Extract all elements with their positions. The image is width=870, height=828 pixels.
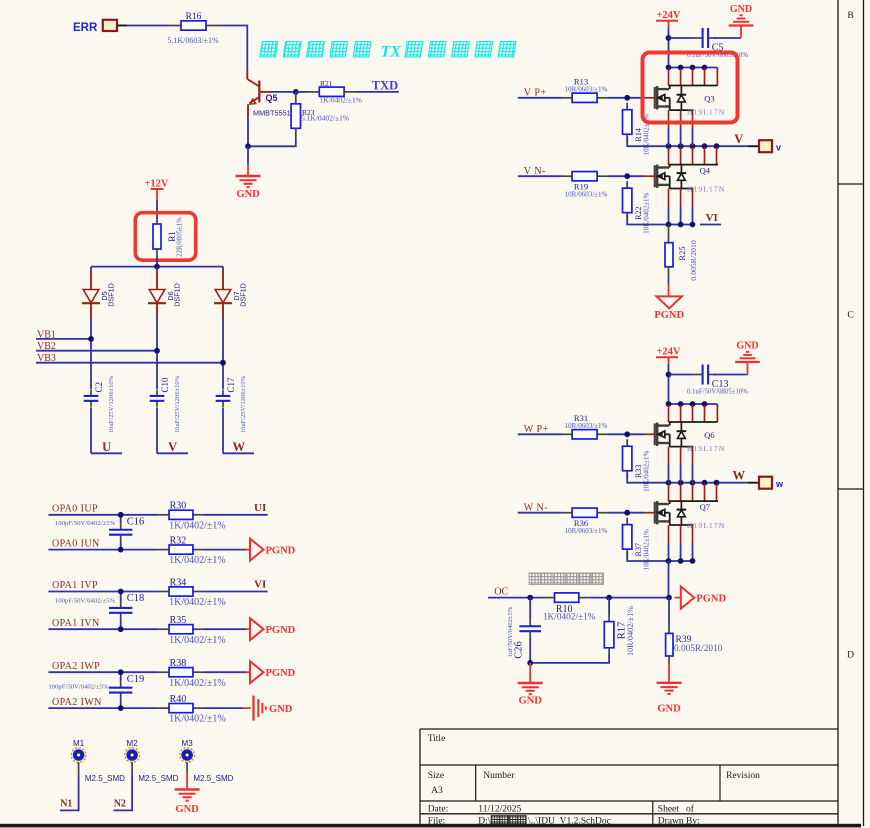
resistor R16 bbox=[167, 12, 219, 45]
wire OC bbox=[488, 597, 544, 599]
port ERR bbox=[73, 20, 127, 34]
wire bbox=[608, 512, 655, 514]
wire bbox=[204, 628, 250, 630]
wire bbox=[156, 407, 158, 453]
wire bbox=[156, 255, 158, 267]
ground GND bbox=[735, 341, 760, 375]
wire bbox=[627, 473, 747, 482]
annotation cyan text bbox=[260, 42, 516, 61]
node diode bus bbox=[154, 264, 160, 270]
capacitor C26 bbox=[507, 598, 541, 663]
title block text Size bbox=[428, 771, 444, 796]
power port +24V bbox=[656, 347, 681, 364]
svg-text:OPA1 IVP: OPA1 IVP bbox=[52, 580, 98, 591]
junction dots output bus bbox=[666, 143, 720, 149]
sheet border right bbox=[838, 0, 864, 826]
svg-text:R34: R34 bbox=[170, 577, 187, 588]
resistor R13 bbox=[561, 77, 608, 103]
node VB junction bbox=[220, 360, 226, 366]
node bbox=[606, 595, 612, 601]
wire bbox=[48, 591, 158, 593]
svg-text:C: C bbox=[847, 311, 853, 321]
svg-text:1K/0402/±1%: 1K/0402/±1% bbox=[169, 714, 226, 725]
resistor R1 bbox=[153, 217, 184, 257]
net label OPA1 IVP bbox=[52, 580, 98, 591]
svg-text:DSF1D: DSF1D bbox=[173, 283, 182, 307]
transistor Q3 bbox=[655, 86, 726, 117]
wire diode top bus bbox=[91, 266, 223, 268]
svg-text:10R/0402/±1%: 10R/0402/±1% bbox=[626, 606, 635, 656]
svg-text:C2: C2 bbox=[94, 382, 104, 393]
net label W P+ bbox=[524, 424, 549, 435]
ground GND sideways bbox=[254, 696, 293, 721]
net label OPA0 IUP bbox=[52, 504, 98, 515]
resistor R22 bbox=[623, 181, 651, 234]
ground GND under R39 bbox=[657, 663, 682, 715]
wire bbox=[668, 279, 670, 296]
wire bbox=[675, 597, 681, 599]
svg-text:Q4: Q4 bbox=[700, 166, 711, 176]
svg-text:Sheet of: Sheet of bbox=[658, 804, 695, 815]
wire bbox=[518, 97, 562, 99]
svg-text:1K/0402/±1%: 1K/0402/±1% bbox=[169, 635, 226, 646]
wire bbox=[668, 364, 670, 404]
node bbox=[527, 660, 533, 666]
wire bbox=[608, 97, 655, 99]
svg-text:0.005R/2010: 0.005R/2010 bbox=[674, 644, 723, 654]
title block text File bbox=[428, 816, 611, 827]
capacitor C5 bbox=[669, 28, 749, 59]
svg-text:N1: N1 bbox=[60, 799, 72, 810]
svg-text:M2.5_SMD: M2.5_SMD bbox=[85, 774, 125, 783]
wire bbox=[530, 654, 609, 663]
net label VI bbox=[706, 212, 718, 224]
svg-text:W: W bbox=[232, 440, 245, 454]
svg-text:w: w bbox=[775, 479, 784, 489]
wire VB2 bbox=[36, 350, 157, 352]
svg-text:GND: GND bbox=[736, 341, 758, 352]
capacitor C19 bbox=[48, 672, 144, 708]
sheet border bottom bbox=[0, 824, 861, 828]
svg-text:M1: M1 bbox=[73, 739, 85, 748]
wire bbox=[204, 671, 250, 673]
svg-text:10uF/25V/1206±10%: 10uF/25V/1206±10% bbox=[108, 375, 115, 433]
svg-text:OPA0 IUN: OPA0 IUN bbox=[52, 538, 100, 549]
capacitor C2 bbox=[84, 375, 115, 433]
svg-text:V: V bbox=[168, 440, 177, 454]
node Q5 emitter bbox=[245, 143, 251, 149]
svg-text:10R/0603/±1%: 10R/0603/±1% bbox=[565, 422, 608, 430]
transistor Q6 bbox=[655, 422, 726, 453]
svg-text:OPA2 IWP: OPA2 IWP bbox=[52, 661, 100, 672]
net label VB2 bbox=[37, 341, 56, 352]
resistor R25 bbox=[665, 225, 698, 281]
svg-text:Title: Title bbox=[428, 734, 446, 744]
svg-text:M3: M3 bbox=[182, 739, 194, 748]
junction dots bbox=[666, 401, 708, 407]
svg-text:D: D bbox=[847, 651, 854, 661]
svg-text:10K/0402±1%: 10K/0402±1% bbox=[643, 451, 651, 492]
wire bbox=[590, 597, 669, 599]
svg-text:GND: GND bbox=[730, 4, 752, 15]
svg-text:10K/0402±1%: 10K/0402±1% bbox=[643, 192, 651, 233]
svg-text:1K/0402/±1%: 1K/0402/±1% bbox=[169, 520, 226, 531]
net label TXD bbox=[372, 79, 398, 93]
resistor R37 bbox=[623, 518, 651, 571]
svg-text:5.1K/0402/±1%: 5.1K/0402/±1% bbox=[301, 114, 349, 123]
wire drain bus bbox=[669, 68, 718, 71]
resistor R40 bbox=[158, 694, 226, 725]
svg-text:PGND: PGND bbox=[266, 668, 296, 679]
svg-text:Number: Number bbox=[483, 771, 515, 781]
wire bbox=[48, 549, 158, 551]
svg-text:R16: R16 bbox=[186, 12, 202, 22]
svg-text:GND: GND bbox=[269, 704, 293, 715]
svg-text:R21: R21 bbox=[320, 79, 333, 88]
node VB junction bbox=[154, 348, 160, 354]
node bbox=[118, 589, 124, 595]
svg-text:v: v bbox=[776, 142, 781, 152]
svg-text:GND: GND bbox=[519, 696, 543, 707]
node gate junction bbox=[624, 173, 630, 179]
capacitor C16 bbox=[55, 515, 144, 550]
wire bbox=[248, 116, 296, 146]
title block text DrawnBy bbox=[658, 817, 700, 827]
diode D5 bbox=[82, 267, 116, 318]
transistor Q5 bbox=[247, 69, 290, 118]
resistor R31 bbox=[561, 413, 608, 439]
wire bbox=[60, 762, 79, 810]
zone letter B bbox=[847, 11, 853, 21]
node gate junction bbox=[624, 95, 630, 101]
wire bbox=[271, 91, 293, 93]
svg-text:100pF/50V/0402/±5%: 100pF/50V/0402/±5% bbox=[55, 598, 116, 605]
wire bbox=[48, 628, 158, 630]
svg-text:N2: N2 bbox=[114, 799, 126, 810]
wire bbox=[90, 407, 92, 453]
transistor Q7 source pins bbox=[669, 525, 693, 561]
svg-text:C17: C17 bbox=[226, 377, 236, 393]
wire bbox=[48, 707, 158, 709]
svg-text:OPA1 IVN: OPA1 IVN bbox=[52, 618, 100, 629]
ground GND at M3 bbox=[175, 762, 200, 815]
svg-text:PGND: PGND bbox=[696, 593, 726, 604]
wire bottom bus bbox=[627, 215, 694, 224]
svg-text:Q7: Q7 bbox=[700, 502, 710, 512]
title block text Sheet bbox=[658, 804, 695, 815]
transistor Q3 source pins bbox=[669, 110, 693, 146]
wire bbox=[700, 224, 721, 226]
net label OPA2 IWN bbox=[52, 697, 102, 708]
svg-text:+12V: +12V bbox=[144, 179, 168, 190]
power port PGND bbox=[654, 296, 684, 321]
svg-text:C10: C10 bbox=[160, 377, 170, 393]
svg-text:10R/0603/±1%: 10R/0603/±1% bbox=[565, 190, 608, 198]
wire bbox=[204, 591, 268, 593]
svg-text:22R/0805±1%: 22R/0805±1% bbox=[177, 217, 184, 257]
power port PGND bbox=[250, 539, 296, 561]
node bbox=[527, 595, 533, 601]
title block text Date bbox=[428, 805, 522, 815]
power port PGND bbox=[250, 618, 296, 640]
svg-text:UI: UI bbox=[254, 502, 266, 514]
svg-text:U: U bbox=[102, 440, 111, 454]
junction dots bottom bus bbox=[666, 558, 696, 564]
wire bbox=[222, 318, 224, 389]
svg-text:W P+: W P+ bbox=[524, 424, 549, 435]
svg-text:10R/0603/±1%: 10R/0603/±1% bbox=[565, 86, 608, 94]
transistor Q6 drain pins bbox=[669, 405, 718, 422]
node bbox=[666, 595, 672, 601]
net label W bbox=[733, 469, 746, 483]
svg-text:R30: R30 bbox=[170, 501, 187, 512]
capacitor C17 bbox=[216, 375, 247, 433]
net label U bbox=[91, 440, 122, 454]
svg-text:Q3: Q3 bbox=[704, 94, 714, 104]
wire VB1 bbox=[36, 338, 91, 340]
port w bbox=[747, 477, 784, 489]
svg-text:R32: R32 bbox=[170, 535, 187, 546]
wire bottom bus bbox=[627, 552, 694, 561]
node bbox=[118, 669, 124, 675]
diode D7 bbox=[214, 267, 248, 318]
power port +12V bbox=[144, 179, 168, 201]
svg-text:R40: R40 bbox=[170, 694, 187, 705]
svg-text:0.005R/2010: 0.005R/2010 bbox=[689, 240, 698, 281]
svg-text:+24V: +24V bbox=[656, 10, 680, 21]
net label UI bbox=[254, 502, 266, 514]
svg-text:File:: File: bbox=[428, 817, 445, 827]
capacitor C10 bbox=[150, 375, 181, 433]
svg-text:100pF/50V/0402/±5%: 100pF/50V/0402/±5% bbox=[48, 684, 109, 691]
svg-text:C18: C18 bbox=[127, 593, 145, 604]
svg-text:MMBT5551: MMBT5551 bbox=[253, 108, 291, 117]
svg-text:100pF/50V/0402/±5%: 100pF/50V/0402/±5% bbox=[55, 520, 116, 527]
svg-text:OPA0 IUP: OPA0 IUP bbox=[52, 504, 98, 515]
transistor Q3 drain pins bbox=[669, 69, 718, 86]
svg-text:0.1uF/50V/0805±10%: 0.1uF/50V/0805±10% bbox=[687, 389, 748, 396]
resistor R39 bbox=[666, 598, 723, 663]
net label W bbox=[223, 440, 254, 454]
net label VB1 bbox=[37, 329, 56, 340]
svg-text:GND: GND bbox=[657, 704, 681, 715]
svg-text:OC: OC bbox=[494, 587, 508, 598]
svg-text:1K/0402/±1%: 1K/0402/±1% bbox=[320, 96, 362, 105]
net label V N- bbox=[524, 166, 546, 177]
svg-text:V: V bbox=[734, 132, 743, 146]
svg-text:C26: C26 bbox=[514, 641, 525, 659]
net label OC bbox=[494, 587, 508, 598]
node gate junction bbox=[624, 431, 630, 437]
wire bbox=[127, 25, 170, 27]
transistor Q7 drain pins bbox=[669, 484, 717, 501]
node bbox=[118, 547, 124, 553]
wire drain bus bbox=[669, 404, 718, 407]
net label VB3 bbox=[37, 353, 56, 364]
svg-text:\..\IDU V1.2.SchDoc: \..\IDU V1.2.SchDoc bbox=[528, 817, 611, 827]
title block text Title bbox=[428, 734, 446, 744]
net label W N- bbox=[524, 502, 548, 513]
svg-text:10uF/25V/1206±10%: 10uF/25V/1206±10% bbox=[174, 375, 181, 433]
node bbox=[118, 705, 124, 711]
junction dots output bus bbox=[666, 480, 720, 486]
svg-text:10R/0603/±1%: 10R/0603/±1% bbox=[565, 527, 608, 535]
resistor R19 bbox=[561, 172, 608, 199]
resistor R38 bbox=[158, 658, 226, 689]
wire bbox=[114, 762, 133, 810]
resistor R32 bbox=[158, 535, 226, 566]
svg-text:A3: A3 bbox=[431, 786, 443, 796]
power port PGND bbox=[250, 661, 296, 683]
junction dots bbox=[666, 65, 708, 71]
node Q5 base bbox=[293, 89, 299, 95]
resistor R14 bbox=[623, 103, 651, 156]
svg-text:C16: C16 bbox=[127, 517, 145, 528]
svg-text:Drawn By:: Drawn By: bbox=[658, 817, 700, 827]
wire VB3 bbox=[36, 362, 223, 364]
ground GND under C26 bbox=[518, 663, 543, 707]
node bbox=[118, 626, 124, 632]
resistor R23 bbox=[291, 92, 349, 139]
svg-text:R25: R25 bbox=[677, 246, 687, 260]
svg-text:W: W bbox=[733, 469, 746, 483]
svg-text:B: B bbox=[847, 11, 853, 21]
svg-text:R35: R35 bbox=[170, 615, 187, 626]
svg-text:TXD: TXD bbox=[372, 79, 398, 93]
wire bbox=[222, 407, 224, 453]
svg-text:V N-: V N- bbox=[524, 166, 546, 177]
wire bbox=[518, 175, 562, 177]
resistor R21 bbox=[296, 79, 362, 104]
net label N1 bbox=[60, 799, 72, 810]
svg-text:1K/0402/±1%: 1K/0402/±1% bbox=[169, 555, 226, 566]
svg-text:ERR: ERR bbox=[73, 22, 98, 34]
svg-text:M2.5_SMD: M2.5_SMD bbox=[138, 774, 178, 783]
svg-text:Q5: Q5 bbox=[266, 93, 278, 103]
node bbox=[118, 512, 124, 518]
transistor Q4 bbox=[655, 164, 726, 194]
svg-text:Revision: Revision bbox=[726, 771, 760, 781]
net label V bbox=[734, 132, 743, 146]
wire bbox=[204, 707, 251, 709]
zone letter C bbox=[847, 311, 853, 321]
capacitor C13 bbox=[669, 365, 749, 396]
svg-text:DSF1D: DSF1D bbox=[107, 283, 116, 307]
svg-text:V P+: V P+ bbox=[524, 88, 547, 99]
wire bbox=[608, 433, 655, 435]
capacitor C18 bbox=[55, 592, 144, 630]
junction dots bottom bus bbox=[666, 222, 696, 228]
wire bbox=[204, 514, 268, 516]
net label OPA0 IUN bbox=[52, 538, 100, 549]
wire bbox=[204, 549, 250, 551]
wire bbox=[217, 26, 247, 69]
title block text Revision bbox=[726, 771, 760, 781]
wire bbox=[608, 175, 655, 177]
svg-text:1nF/50V/0402±5%: 1nF/50V/0402±5% bbox=[507, 606, 514, 657]
net label V P+ bbox=[524, 88, 547, 99]
svg-text:Q6: Q6 bbox=[704, 430, 714, 440]
wire bbox=[518, 433, 562, 435]
annotation gray text bbox=[529, 573, 604, 585]
resistor R30 bbox=[158, 501, 226, 532]
wire bbox=[48, 671, 158, 673]
node V +24V junction bbox=[666, 35, 672, 41]
svg-text:OPA2 IWN: OPA2 IWN bbox=[52, 697, 102, 708]
wire bbox=[668, 28, 670, 68]
svg-text:10K/0402±1%: 10K/0402±1% bbox=[643, 529, 651, 570]
mounting hole M3 bbox=[180, 739, 234, 783]
resistor R36 bbox=[561, 508, 608, 535]
zone letter D bbox=[847, 651, 854, 661]
transistor Q7 bbox=[655, 500, 726, 530]
net label OPA2 IWP bbox=[52, 661, 100, 672]
wire bbox=[48, 514, 158, 516]
title block frame bbox=[420, 729, 838, 824]
ground GND bbox=[236, 146, 261, 200]
svg-text:GND: GND bbox=[175, 804, 199, 815]
svg-text:11/12/2025: 11/12/2025 bbox=[478, 805, 521, 815]
wire bbox=[156, 318, 158, 389]
power port +24V bbox=[656, 10, 681, 27]
transistor Q6 source pins bbox=[669, 447, 693, 483]
svg-text:M2: M2 bbox=[127, 739, 139, 748]
resistor R33 bbox=[623, 439, 651, 492]
wire bbox=[356, 91, 399, 93]
wire bbox=[90, 318, 92, 389]
svg-text:VI: VI bbox=[706, 212, 718, 224]
node VB junction bbox=[88, 336, 94, 342]
svg-text:Date:: Date: bbox=[428, 805, 449, 815]
mounting hole M2 bbox=[125, 739, 179, 783]
node gate junction bbox=[624, 510, 630, 516]
svg-text:10uF/25V/1206±10%: 10uF/25V/1206±10% bbox=[240, 375, 247, 433]
ground GND bbox=[729, 4, 754, 38]
svg-text:PGND: PGND bbox=[654, 310, 684, 321]
title block text Number bbox=[483, 771, 515, 781]
svg-text:C19: C19 bbox=[127, 674, 145, 685]
wire bbox=[627, 137, 747, 146]
svg-text:R38: R38 bbox=[170, 658, 187, 669]
svg-text:+24V: +24V bbox=[656, 347, 680, 358]
svg-text:PGND: PGND bbox=[266, 545, 296, 556]
svg-text:1K/0402/±1%: 1K/0402/±1% bbox=[169, 597, 226, 608]
resistor R10 bbox=[543, 593, 596, 623]
svg-text:PGND: PGND bbox=[266, 625, 296, 636]
wire bbox=[156, 200, 158, 219]
svg-text:1K/0402/±1%: 1K/0402/±1% bbox=[169, 678, 226, 689]
mounting hole M1 bbox=[71, 739, 125, 783]
resistor R34 bbox=[158, 577, 226, 608]
svg-text:1K/0402/±1%: 1K/0402/±1% bbox=[543, 612, 596, 622]
resistor R17 bbox=[604, 598, 635, 656]
wire W bus to OC node bbox=[668, 561, 670, 598]
transistor Q4 drain pins bbox=[669, 147, 717, 164]
net label N2 bbox=[114, 799, 126, 810]
svg-text:R1: R1 bbox=[167, 231, 177, 242]
diode D6 bbox=[148, 267, 182, 318]
svg-text:D:\: D:\ bbox=[478, 817, 491, 827]
net label VI bbox=[254, 579, 266, 591]
node W +24V junction bbox=[666, 372, 672, 378]
highlight box R1 bbox=[135, 213, 195, 261]
resistor R35 bbox=[158, 615, 226, 646]
transistor Q4 source pins bbox=[669, 189, 693, 225]
highlight box Q3 bbox=[643, 53, 738, 123]
power port PGND bbox=[681, 587, 727, 609]
wire bbox=[518, 512, 562, 514]
svg-text:TX: TX bbox=[381, 44, 402, 61]
